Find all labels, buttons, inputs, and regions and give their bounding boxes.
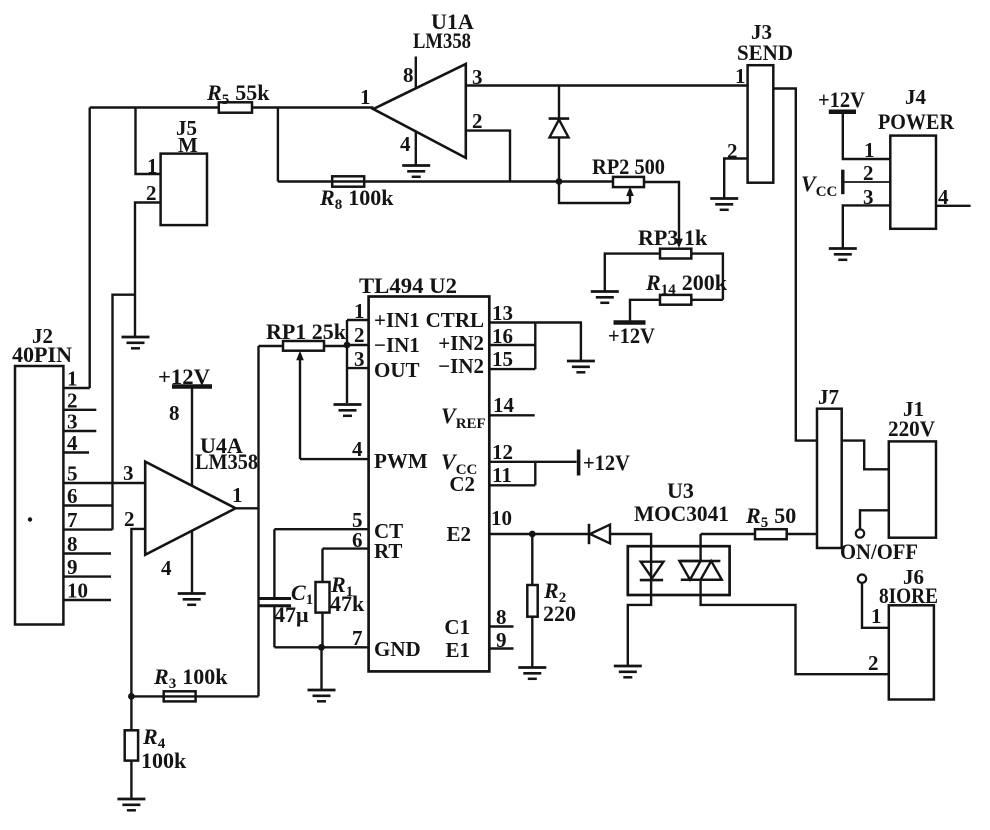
connector J4 box xyxy=(890,136,936,229)
svg-text:M: M xyxy=(178,133,198,157)
ground - U2 pin 13 xyxy=(567,361,595,372)
label J5 xyxy=(176,116,197,140)
ground - R2 xyxy=(518,668,546,679)
label U1A pin 1 xyxy=(360,85,371,109)
pin 11 stub U2 xyxy=(489,484,535,486)
wire - C1 bottom to GND line xyxy=(273,606,275,648)
wire - feedback horizontal through R8 to RP2 xyxy=(278,180,613,182)
label U1A pin 2 xyxy=(472,109,483,133)
label RP2 500 xyxy=(592,154,665,179)
svg-text:10: 10 xyxy=(491,506,512,530)
svg-text:+12V: +12V xyxy=(608,323,655,348)
label U2 pin 14 xyxy=(493,393,515,417)
svg-text:11: 11 xyxy=(492,463,512,487)
label E1 xyxy=(445,638,470,662)
svg-text:12: 12 xyxy=(492,440,513,464)
svg-text:2: 2 xyxy=(124,507,135,531)
label R8 100k xyxy=(319,185,394,213)
label U2 pin 11 xyxy=(492,463,512,487)
label -IN1 xyxy=(374,333,420,357)
pin 2 stub J2 xyxy=(63,409,96,411)
ground - under J5 xyxy=(122,337,150,348)
pin 3 stub J2 xyxy=(63,430,96,432)
wire - switch terminal to J6 pin 1 xyxy=(862,583,889,628)
wire - J4 pin 2 (VCC) xyxy=(843,181,891,183)
svg-text:U3: U3 xyxy=(667,478,694,503)
wire - RP3 left terminal to ground xyxy=(605,254,660,292)
connector J2 box xyxy=(15,366,63,625)
label C1 (U2 pin 8) xyxy=(444,615,470,639)
pin 1 stub J2 xyxy=(63,387,89,389)
svg-text:LM358: LM358 xyxy=(413,28,471,53)
wire - switch to J1 lower pin xyxy=(860,510,889,529)
svg-text:2: 2 xyxy=(727,139,738,163)
wire - D2 to U3 LED xyxy=(610,534,651,562)
node - feedback/diode junction xyxy=(556,178,563,185)
wire - R14 right side xyxy=(691,299,723,301)
svg-text:8: 8 xyxy=(67,532,78,556)
label U2 pin 9 xyxy=(496,628,507,652)
svg-text:4: 4 xyxy=(67,431,78,455)
resistor R5 55k xyxy=(219,102,252,112)
diode D1 (vertical, pointing up) xyxy=(549,119,570,138)
ground - J4 pin 3 xyxy=(829,249,857,260)
svg-text:C1: C1 xyxy=(444,615,470,639)
wire - U1A pin 2 down to feedback net xyxy=(466,131,510,182)
label U1A pin 4 xyxy=(400,132,411,156)
svg-text:14: 14 xyxy=(493,393,515,417)
label J7 xyxy=(818,385,839,409)
svg-text:1k: 1k xyxy=(684,225,708,250)
label U4A pin 2 xyxy=(124,507,135,531)
label J4 xyxy=(905,85,927,109)
ground - RP3 left xyxy=(591,292,619,303)
label R1 xyxy=(330,572,353,600)
label U1A pin 3 xyxy=(472,65,483,89)
label J6 pin 2 xyxy=(868,651,879,675)
label J3 pin 2 xyxy=(727,139,738,163)
label RP3 1k xyxy=(638,225,708,250)
svg-text:47k: 47k xyxy=(330,591,365,616)
potentiometer RP2 body xyxy=(613,177,644,187)
connector J7 box xyxy=(817,409,842,548)
svg-text:R555k: R555k xyxy=(206,80,270,108)
svg-text:GND: GND xyxy=(374,637,421,661)
svg-text:4: 4 xyxy=(161,556,172,580)
wire - J4 pin 3 to ground xyxy=(843,205,891,248)
pin 6 stub U2 (RT) xyxy=(323,547,369,549)
label J2 xyxy=(32,324,53,348)
svg-text:4: 4 xyxy=(352,437,363,461)
pin 9 stub J2 xyxy=(63,575,111,577)
label R4 xyxy=(142,724,166,752)
label U4A xyxy=(200,433,243,458)
svg-text:8: 8 xyxy=(403,63,414,87)
pin 6 stub J2 xyxy=(63,504,112,506)
svg-text:1: 1 xyxy=(232,483,243,507)
ground - J3 pin 2 xyxy=(710,199,738,210)
pin 9 stub U2 xyxy=(489,647,513,649)
ground - U3 LED xyxy=(614,666,642,677)
label U2 pin 5 xyxy=(352,508,363,532)
label J2 pin 3 xyxy=(67,410,78,434)
label J5 pin 1 xyxy=(147,154,158,178)
wire - RP1 right terminal to U2 pin 2 node xyxy=(324,345,347,347)
label +IN1 xyxy=(374,308,420,332)
label VREF xyxy=(441,403,486,432)
wire - R1 bottom to GND line xyxy=(321,613,323,648)
svg-text:MOC3041: MOC3041 xyxy=(634,501,729,526)
svg-text:8IORE: 8IORE xyxy=(879,583,938,608)
wire - J3 pin 2 to ground xyxy=(724,159,747,199)
svg-text:1: 1 xyxy=(360,85,371,109)
svg-text:16: 16 xyxy=(492,324,513,348)
label U4A pin 4 xyxy=(161,556,172,580)
wire - U4A pin 2 from below xyxy=(131,529,145,697)
label 40PIN xyxy=(12,342,72,367)
wire - J4 pin 4 stub xyxy=(936,205,971,207)
svg-text:7: 7 xyxy=(352,626,363,650)
capacitor C1 xyxy=(258,599,291,606)
switch ON/OFF terminal xyxy=(856,529,864,537)
label MOC3041 xyxy=(634,501,729,526)
ground - U2 pin 7 xyxy=(308,690,336,701)
label U2 pin 2 xyxy=(354,323,365,347)
connector J6 box xyxy=(889,605,934,699)
label J4 pin 1 xyxy=(864,138,875,162)
ground - U2 pins 1/2/3 xyxy=(334,405,362,416)
wire - bracket pins 12/11 xyxy=(534,462,536,486)
label R14 200k xyxy=(645,270,728,298)
svg-text:40PIN: 40PIN xyxy=(12,342,72,367)
svg-text:+IN2: +IN2 xyxy=(438,331,484,355)
svg-text:E1: E1 xyxy=(445,638,470,662)
potentiometer RP1 body xyxy=(283,341,324,351)
svg-text:LM358: LM358 xyxy=(195,449,258,474)
node - R3 left junction xyxy=(128,693,135,700)
pin 10 stub U2 (E2) xyxy=(489,533,589,535)
wire - left vertical from input net down to J2 pin 1 xyxy=(88,108,90,389)
label POWER xyxy=(878,109,955,134)
label CT xyxy=(374,519,403,543)
svg-text:1: 1 xyxy=(147,154,158,178)
label E2 xyxy=(446,522,471,546)
svg-text:SEND: SEND xyxy=(737,40,793,65)
svg-text:10: 10 xyxy=(67,579,88,603)
op-amp U4A triangle xyxy=(145,462,235,555)
svg-text:8: 8 xyxy=(169,401,180,425)
ground - R4 xyxy=(117,799,145,810)
svg-text:6: 6 xyxy=(352,528,363,552)
label J4 pin 4 xyxy=(938,185,949,209)
wiper RP1 - arrow up and wire to U2 PWM pin 4 xyxy=(296,351,368,459)
pin 10 stub J2 xyxy=(63,599,111,601)
svg-text:3: 3 xyxy=(472,65,483,89)
svg-text:CTRL: CTRL xyxy=(426,308,484,332)
wire - branch from J5 pin 2 net to J2 pins 6 and 7 xyxy=(113,295,136,530)
wire - RP1 left terminal xyxy=(259,345,284,347)
resistor R8 100k xyxy=(332,176,364,186)
pin 4 stub J2 xyxy=(63,451,89,453)
label +12V (U2 pin 12) xyxy=(583,450,630,475)
label CTRL xyxy=(426,308,484,332)
resistor R2 220 body xyxy=(527,585,537,617)
label U2 pin 15 xyxy=(492,347,513,371)
label RP1 25k xyxy=(266,319,347,344)
wire - R2 bottom to ground xyxy=(531,617,533,668)
ground - U1A pin 4 xyxy=(402,166,430,177)
connector J5 box xyxy=(161,154,207,226)
svg-text:7: 7 xyxy=(67,508,78,532)
label U2 pin 10 xyxy=(491,506,512,530)
svg-text:R14200k: R14200k xyxy=(645,270,728,298)
label +IN2 xyxy=(438,331,484,355)
label C2 xyxy=(449,472,475,496)
label J4 pin 3 xyxy=(863,185,874,209)
svg-text:3: 3 xyxy=(67,410,78,434)
svg-text:47μ: 47μ xyxy=(274,602,309,627)
label SEND xyxy=(737,40,793,65)
LED inside U3 (pointing down) xyxy=(640,562,664,580)
label J6 pin 1 xyxy=(871,604,882,628)
svg-text:E2: E2 xyxy=(446,522,471,546)
label PWM xyxy=(374,449,428,473)
wire - GND line to ground symbol xyxy=(320,647,322,690)
svg-text:4: 4 xyxy=(400,132,411,156)
wire - R3 net from U4A pin2 node to output vertical xyxy=(131,695,258,697)
label R3 100k xyxy=(153,664,228,692)
svg-text:R3100k: R3100k xyxy=(153,664,228,692)
svg-text:RP3: RP3 xyxy=(638,225,678,250)
diode D2 (pointing left) xyxy=(589,524,610,544)
label J2 pin 9 xyxy=(67,555,78,579)
label J2 pin 5 xyxy=(67,462,78,486)
node - R2 junction on E2 wire xyxy=(529,531,536,538)
label +12V (U4A pin 8) xyxy=(158,364,210,389)
pin 1 stub U2 xyxy=(347,319,369,321)
svg-text:RT: RT xyxy=(374,539,402,563)
connector J3 box xyxy=(748,65,774,183)
pin 4 stub U1A xyxy=(415,132,417,166)
svg-text:2: 2 xyxy=(354,323,365,347)
label U2 pin 6 xyxy=(352,528,363,552)
potentiometer RP3 body xyxy=(660,249,691,259)
svg-text:J4: J4 xyxy=(905,85,927,109)
svg-text:3: 3 xyxy=(354,347,365,371)
wire - RP2 right terminal to RP3 wiper xyxy=(644,182,679,243)
pin 2 stub U2 xyxy=(347,344,369,346)
label C1 xyxy=(291,580,313,608)
wire - +12V to J4 pin 1 xyxy=(843,112,891,159)
wire - bracket pins 16/15 xyxy=(534,323,536,370)
svg-text:8: 8 xyxy=(496,605,507,629)
label TL494 U2 xyxy=(359,273,457,298)
label 47u xyxy=(274,602,309,627)
label J2 pin 4 xyxy=(67,431,78,455)
svg-text:2: 2 xyxy=(472,109,483,133)
svg-text:2: 2 xyxy=(868,651,879,675)
wiper RP2 - arrow and wire back to feedback node xyxy=(559,182,634,204)
label R5 50 xyxy=(745,503,796,531)
node - J2 dot inside box xyxy=(28,517,32,521)
node - U2 pin 2 junction xyxy=(344,342,351,349)
label 220 xyxy=(543,601,576,626)
label M xyxy=(178,133,198,157)
svg-text:9: 9 xyxy=(67,555,78,579)
label J2 pin 10 xyxy=(67,579,88,603)
svg-text:−IN1: −IN1 xyxy=(374,333,420,357)
pin 12 stub U2 to +12V xyxy=(489,461,576,463)
wire - U4A output pin 1 xyxy=(236,507,259,509)
svg-text:+12V: +12V xyxy=(818,87,865,112)
label -IN2 xyxy=(438,354,484,378)
pin 5 stub J2 xyxy=(63,482,145,484)
svg-text:−IN2: −IN2 xyxy=(438,354,484,378)
resistor R3 100k body xyxy=(164,691,196,701)
svg-text:3: 3 xyxy=(123,461,134,485)
label LM358 (U4A) xyxy=(195,449,258,474)
svg-text:9: 9 xyxy=(496,628,507,652)
label J6 xyxy=(903,565,924,589)
label U2 pin 1 xyxy=(354,299,365,323)
svg-text:C2: C2 xyxy=(449,472,475,496)
label U2 pin 16 xyxy=(492,324,513,348)
wire - down to R2 xyxy=(531,534,533,585)
resistor R1 47k body xyxy=(316,582,330,613)
pin 15 stub U2 xyxy=(489,368,535,370)
wire - J5 pin 2 to ground and J2 pins 6/7 xyxy=(135,203,161,337)
node - GND line junction xyxy=(318,644,325,651)
svg-text:RP2 500: RP2 500 xyxy=(592,154,665,179)
wire - U2 pins 1-2-3 bracket to ground xyxy=(346,320,348,403)
label U2 pin 3 xyxy=(354,347,365,371)
label +12V (J4) xyxy=(818,87,865,112)
svg-text:OUT: OUT xyxy=(374,358,420,382)
IC U2 TL494 box xyxy=(369,297,490,672)
pin 8 stub J2 xyxy=(63,552,111,554)
triac inside U3 xyxy=(679,534,721,580)
diode D1 anode wire xyxy=(558,137,560,181)
label J5 pin 2 xyxy=(146,181,157,205)
connector J1 box xyxy=(889,441,936,537)
label 47k xyxy=(330,591,365,616)
wire - RP3 right terminal down to R14 xyxy=(691,254,723,300)
label R5 55k xyxy=(206,80,270,108)
power +12V bar (J4) xyxy=(829,109,856,114)
svg-text:1: 1 xyxy=(354,299,365,323)
svg-text:R8100k: R8100k xyxy=(319,185,394,213)
svg-text:220: 220 xyxy=(543,601,576,626)
switch terminal above J6 xyxy=(858,575,866,583)
svg-text:6: 6 xyxy=(67,484,78,508)
label U2 pin 12 xyxy=(492,440,513,464)
power +12V tick (U2 pin 12) xyxy=(577,450,581,476)
label 100k (R4) xyxy=(141,748,187,773)
resistor R4 100k body xyxy=(125,730,138,760)
svg-text:15: 15 xyxy=(492,347,513,371)
label RT xyxy=(374,539,402,563)
resistor R14 200k body xyxy=(660,295,691,305)
pin 4 wire U4A xyxy=(191,530,193,593)
label U3 xyxy=(667,478,694,503)
wire - branch down to J5 pin 1 xyxy=(136,108,161,175)
svg-text:TL494 U2: TL494 U2 xyxy=(359,273,457,298)
wire - triac bottom to J6 pin 2 xyxy=(701,580,889,675)
wire - J7 right to J1 pin xyxy=(842,441,889,470)
wire - feedback vertical from R5 output node xyxy=(277,108,279,182)
pin 16 stub U2 xyxy=(489,344,535,346)
label J1 xyxy=(903,397,924,421)
pin 5 stub U2 (CT) xyxy=(274,528,368,530)
svg-text:13: 13 xyxy=(492,301,513,325)
pin 8 wire U4A xyxy=(191,387,193,487)
label 220V xyxy=(888,416,935,441)
label LM358 (U1A) xyxy=(413,28,471,53)
label J2 pin 8 xyxy=(67,532,78,556)
wire - R4 bottom to ground xyxy=(130,761,132,799)
pin 7 stub J2 xyxy=(63,528,112,530)
wire - down to R4 xyxy=(130,696,132,730)
label U1A xyxy=(431,9,474,34)
wire - CT down to C1 xyxy=(273,529,275,598)
label U2 pin 7 xyxy=(352,626,363,650)
wire - RT down to R1 xyxy=(321,549,323,582)
wire - main input net from top-left corner to R5 xyxy=(90,106,219,108)
optocoupler U3 box xyxy=(628,546,730,595)
label VCC (U2) xyxy=(441,449,477,478)
pin 7 stub U2 (GND) xyxy=(274,646,368,648)
pin 13 stub U2 (CTRL) to ground xyxy=(489,323,581,362)
svg-text:220V: 220V xyxy=(888,416,935,441)
label U4A pin 1 xyxy=(232,483,243,507)
resistor R5 50 body xyxy=(755,529,787,539)
terminal bar VCC xyxy=(841,170,844,195)
wire - R5 output to op-amp U1A pin 1 node xyxy=(252,106,374,108)
svg-text:100k: 100k xyxy=(141,748,187,773)
wire - U1A pin 3 to J3 pin 1 xyxy=(466,84,748,86)
label +12V (R14) xyxy=(608,323,655,348)
label U1A pin 8 xyxy=(403,63,414,87)
svg-text:ON/OFF: ON/OFF xyxy=(840,539,918,564)
diode D1 cathode wire xyxy=(558,86,560,119)
wire - J3 right side to long vertical toward J7 xyxy=(773,89,817,441)
svg-text:1: 1 xyxy=(735,64,746,88)
label U2 pin 4 xyxy=(352,437,363,461)
pin 8 stub U2 xyxy=(489,625,513,627)
label U2 pin 8 xyxy=(496,605,507,629)
svg-text:5: 5 xyxy=(67,462,78,486)
svg-text:4: 4 xyxy=(938,185,949,209)
svg-text:PWM: PWM xyxy=(374,449,428,473)
label J2 pin 2 xyxy=(67,388,78,412)
wire - LED cathode to ground xyxy=(628,580,651,666)
wire - output vertical up to RP1 and down to R3 xyxy=(257,346,259,696)
label U2 pin 13 xyxy=(492,301,513,325)
wiper RP3 - arrow pointing down into body xyxy=(675,239,683,249)
wire - R14 left side down to +12V xyxy=(630,300,660,321)
label 8IORE xyxy=(879,583,938,608)
svg-text:2: 2 xyxy=(863,161,874,185)
ground - U4A pin 4 xyxy=(178,594,206,605)
wire - triac top to R5(50) xyxy=(701,533,755,535)
power +12V bar (U4A) xyxy=(172,384,212,389)
svg-text:+12V: +12V xyxy=(583,450,630,475)
label GND xyxy=(374,637,421,661)
label VCC xyxy=(801,171,837,200)
pin 3 stub U2 xyxy=(347,367,369,369)
svg-text:1: 1 xyxy=(871,604,882,628)
pin 14 stub U2 xyxy=(489,414,534,416)
